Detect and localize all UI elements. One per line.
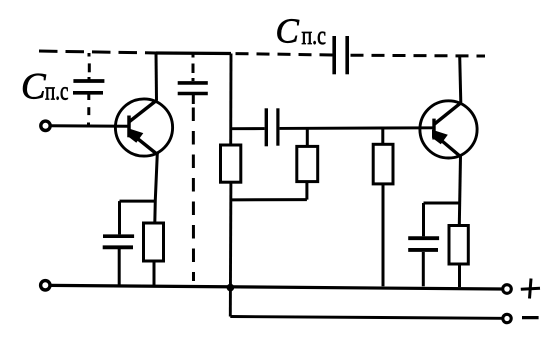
svg-text:п.с: п.с [45, 77, 69, 106]
svg-text:C: C [21, 67, 47, 108]
svg-text:C: C [276, 12, 300, 51]
svg-text:п.с: п.с [302, 21, 327, 50]
